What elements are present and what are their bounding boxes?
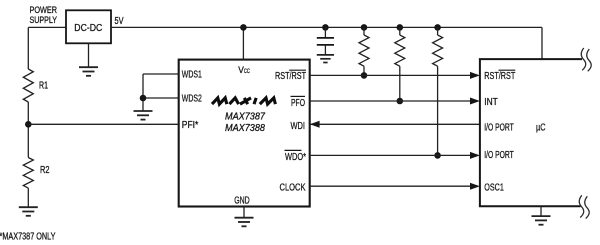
pin label uC RST/RST with overline — [484, 70, 515, 82]
svg-text:5V: 5V — [115, 16, 124, 27]
arrow into uC RST — [470, 72, 480, 79]
svg-text:RST/RST: RST/RST — [484, 70, 515, 82]
ground (main IC) — [235, 218, 254, 227]
svg-text:SUPPLY: SUPPLY — [30, 15, 58, 26]
op IC U1 MAX7387/MAX7388 box — [179, 60, 310, 207]
node A junction dot — [25, 121, 32, 128]
arrow into uC INT — [470, 98, 480, 105]
svg-text:µC: µC — [536, 121, 546, 133]
wire WDO-I/O line — [310, 154, 472, 156]
resistor R2 — [23, 158, 49, 189]
resistor R5 pull-up WDO — [433, 27, 443, 155]
MAXIM logo — [212, 98, 275, 104]
svg-text:INT: INT — [484, 96, 498, 108]
svg-text:PFI*: PFI* — [182, 119, 199, 131]
wire PFO-INT line — [310, 100, 472, 102]
microcontroller U2 box (open right side) — [479, 59, 582, 206]
wire WDS2 stub — [143, 97, 179, 99]
svg-text:CC: CC — [244, 68, 250, 75]
svg-text:GND: GND — [234, 194, 250, 206]
arrow into WDI — [310, 121, 320, 128]
svg-text:R1: R1 — [39, 80, 48, 91]
arrow into uC OSC1 — [470, 183, 480, 190]
ground (below R2) — [19, 207, 38, 216]
ground (capacitor) — [317, 55, 334, 63]
resistor R4 pull-up PFO — [395, 27, 405, 101]
wire WDI line — [310, 123, 480, 125]
resistor R3 pull-up RST — [359, 27, 369, 75]
wire GND stem — [243, 207, 245, 218]
junction dot R3 rail — [361, 24, 368, 31]
junction dot WDS — [140, 95, 147, 102]
svg-text:WDS2: WDS2 — [182, 93, 202, 105]
junction dot R4 rail — [397, 24, 404, 31]
svg-text:PFO: PFO — [291, 97, 305, 109]
svg-text:MAX7388: MAX7388 — [225, 123, 265, 134]
junction dot cap rail — [322, 24, 329, 31]
svg-text:WDS1: WDS1 — [182, 69, 202, 81]
junction dot R5 rail — [434, 24, 441, 31]
svg-text:R2: R2 — [40, 165, 50, 176]
svg-text:I/O PORT: I/O PORT — [484, 149, 514, 161]
DC-DC converter box — [66, 10, 111, 43]
ground (WDS tie) — [134, 111, 153, 120]
pin label PFO with overline — [291, 96, 306, 109]
wire RST/RST line — [310, 74, 472, 76]
svg-text:OSC1: OSC1 — [484, 181, 504, 193]
wire R1 to node A — [27, 102, 29, 158]
svg-text:*MAX7387 ONLY: *MAX7387 ONLY — [0, 232, 56, 243]
wire left supply vertical (top) — [27, 27, 29, 69]
svg-text:WDO*: WDO* — [285, 151, 306, 163]
svg-text:RST/RST: RST/RST — [275, 70, 306, 82]
svg-text:WDI: WDI — [291, 120, 306, 132]
pin label VCC — [238, 65, 250, 75]
junction dot R5 to WDO line — [434, 152, 441, 159]
wire WDS1 stub — [143, 73, 179, 75]
resistor R1 — [23, 69, 48, 102]
svg-text:CLOCK: CLOCK — [280, 181, 306, 193]
wire R2 to ground — [27, 188, 29, 207]
wire power supply horizontal — [28, 26, 66, 28]
wire VCC drop — [242, 27, 244, 59]
pin label WDO* with overline — [285, 150, 307, 162]
capacitor C1 — [317, 27, 334, 54]
arrow into uC I/O PORT — [470, 152, 480, 159]
break squiggle top right — [581, 48, 591, 71]
junction dot R4 to PFO line — [397, 98, 404, 105]
wire PFI line — [28, 123, 178, 125]
wire 5V rail — [111, 26, 542, 28]
label POWER SUPPLY — [30, 5, 58, 26]
ground (uC) — [532, 216, 551, 225]
junction dot VCC rail — [240, 24, 247, 31]
break squiggle bottom right — [579, 195, 589, 218]
svg-text:I/O PORT: I/O PORT — [484, 122, 514, 134]
junction dot R3 to RST line — [361, 72, 368, 79]
wire uC ground stem — [540, 206, 542, 216]
wire uC supply drop — [541, 27, 543, 59]
svg-text:MAX7387: MAX7387 — [225, 112, 265, 123]
pin label RST/RST with overline — [275, 70, 306, 82]
ground (below DC-DC) — [79, 43, 98, 76]
wire WDS tie vertical — [142, 74, 144, 111]
svg-text:DC-DC: DC-DC — [74, 23, 102, 34]
wire CLOCK-OSC1 line — [310, 185, 472, 187]
